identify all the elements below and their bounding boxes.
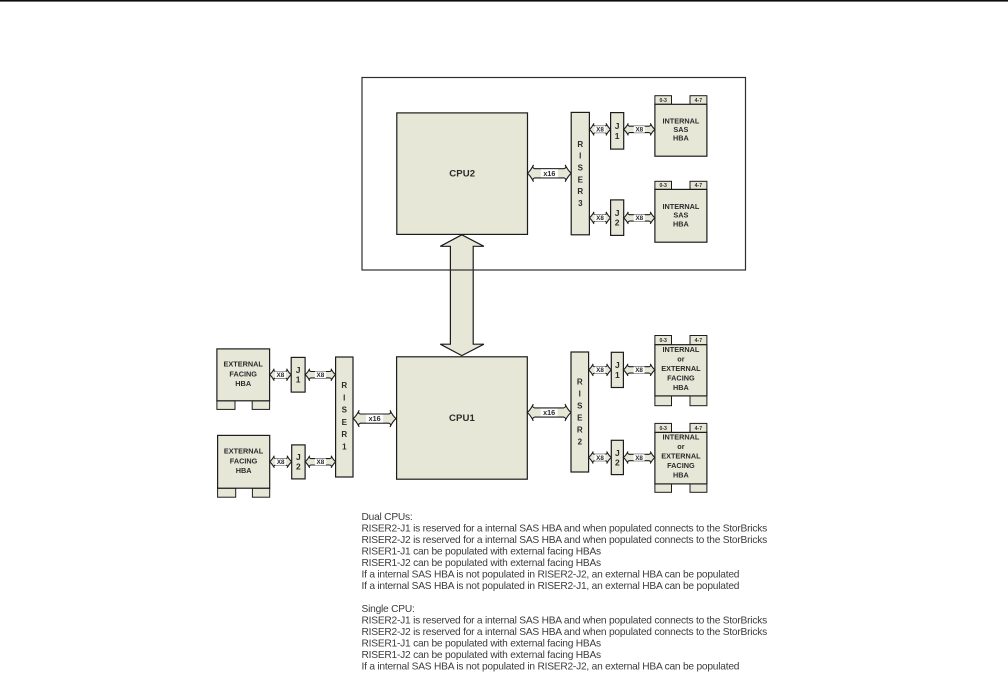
notes text block <box>362 512 768 673</box>
svg-text:SAS: SAS <box>673 125 688 134</box>
svg-text:E: E <box>577 413 583 422</box>
svg-text:1: 1 <box>615 131 620 141</box>
svg-text:FACING: FACING <box>667 461 695 470</box>
svg-text:HBA: HBA <box>673 134 690 143</box>
svg-text:INTERNAL: INTERNAL <box>662 433 699 442</box>
svg-text:X8: X8 <box>635 127 643 134</box>
svg-text:EXTERNAL: EXTERNAL <box>661 452 701 461</box>
svg-text:4-7: 4-7 <box>695 98 703 104</box>
svg-text:X8: X8 <box>596 367 604 374</box>
X8 arrow RISER3-J1 <box>589 123 610 135</box>
CPU1 box <box>397 357 528 479</box>
svg-text:X8: X8 <box>635 455 643 462</box>
svg-text:S: S <box>578 164 584 173</box>
svg-text:1: 1 <box>296 375 301 385</box>
svg-text:HBA: HBA <box>236 466 253 475</box>
svg-text:R: R <box>577 187 583 196</box>
svg-text:2: 2 <box>578 437 583 446</box>
X8 arrow RISER3-J2 <box>589 212 610 224</box>
svg-text:RISER2-J1 is reserved for a in: RISER2-J1 is reserved for a internal SAS… <box>362 523 768 534</box>
X8 arrow J2-internal SAS HBA 2 <box>624 212 655 224</box>
svg-text:X8: X8 <box>317 459 325 466</box>
svg-text:R: R <box>341 381 347 390</box>
svg-text:R: R <box>577 140 583 149</box>
svg-text:FACING: FACING <box>230 456 258 465</box>
dual CPU enclosure box <box>362 78 746 271</box>
svg-text:4-7: 4-7 <box>695 426 703 432</box>
svg-text:X8: X8 <box>277 459 285 466</box>
svg-text:RISER2-J1 is reserved for a in: RISER2-J1 is reserved for a internal SAS… <box>362 615 768 626</box>
svg-text:HBA: HBA <box>673 219 690 228</box>
svg-text:x16: x16 <box>543 169 555 178</box>
svg-text:EXTERNAL: EXTERNAL <box>661 364 701 373</box>
svg-text:RISER1-J1 can be populated wit: RISER1-J1 can be populated with external… <box>362 638 602 649</box>
svg-text:SAS: SAS <box>673 211 688 220</box>
svg-text:1: 1 <box>615 370 620 380</box>
interconnect double block arrow CPU2-CPU1 <box>440 235 484 356</box>
external facing HBA 1 <box>217 349 270 410</box>
svg-text:R: R <box>341 430 347 439</box>
X8 arrow RISER2-J1 <box>589 364 612 376</box>
svg-text:HBA: HBA <box>673 383 690 392</box>
X8 arrow J2-int/ext HBA 2 <box>623 452 655 464</box>
svg-text:HBA: HBA <box>673 471 690 480</box>
svg-text:0-3: 0-3 <box>659 338 667 344</box>
svg-text:Dual CPUs:: Dual CPUs: <box>362 512 413 523</box>
svg-text:E: E <box>578 175 584 184</box>
svg-text:INTERNAL: INTERNAL <box>662 345 699 354</box>
svg-text:4-7: 4-7 <box>695 338 703 344</box>
svg-text:I: I <box>579 152 581 161</box>
svg-text:2: 2 <box>296 462 301 472</box>
svg-text:CPU2: CPU2 <box>449 169 475 180</box>
svg-text:X8: X8 <box>317 372 325 379</box>
x16 arrow CPU1-RISER2 <box>527 404 571 421</box>
RISER1 box <box>336 357 353 477</box>
svg-text:X8: X8 <box>635 215 643 222</box>
svg-text:X8: X8 <box>277 372 285 379</box>
svg-text:0-3: 0-3 <box>659 426 667 432</box>
svg-text:INTERNAL: INTERNAL <box>662 202 699 211</box>
internal SAS HBA 2 <box>655 181 707 242</box>
svg-text:J: J <box>296 452 301 462</box>
svg-text:or: or <box>677 355 684 364</box>
svg-text:0-3: 0-3 <box>659 98 667 104</box>
connector J2 (riser3) <box>611 200 624 236</box>
svg-text:S: S <box>342 406 348 415</box>
RISER3 box <box>571 112 589 234</box>
svg-text:X8: X8 <box>635 367 643 374</box>
internal or external facing HBA 1 <box>655 336 707 406</box>
svg-text:X8: X8 <box>596 127 604 134</box>
X8 arrow J1-RISER1 <box>305 369 336 381</box>
x16 arrow RISER1-CPU1 <box>353 410 396 427</box>
connector J1 (riser2) <box>611 352 623 387</box>
connector J2 (riser2) <box>611 440 623 474</box>
svg-text:2: 2 <box>615 218 620 228</box>
X8 arrow J2-RISER1 <box>305 456 336 468</box>
svg-text:RISER1-J2 can be populated wit: RISER1-J2 can be populated with external… <box>362 650 602 661</box>
internal or external facing HBA 2 <box>655 423 707 492</box>
svg-text:E: E <box>342 418 348 427</box>
svg-text:Single CPU:: Single CPU: <box>362 604 415 615</box>
svg-text:X8: X8 <box>596 455 604 462</box>
top page border line <box>0 0 1008 2</box>
svg-text:0-3: 0-3 <box>659 183 667 189</box>
svg-text:R: R <box>577 425 583 434</box>
connector J2 (riser1) <box>292 445 305 479</box>
svg-text:RISER2-J2 is reserved for a in: RISER2-J2 is reserved for a internal SAS… <box>362 535 768 546</box>
svg-text:J: J <box>615 208 620 218</box>
X8 arrow J1-internal SAS HBA 1 <box>624 123 655 135</box>
X8 arrow RISER2-J2 <box>589 452 612 464</box>
svg-text:EXTERNAL: EXTERNAL <box>224 447 264 456</box>
svg-text:If a internal SAS HBA is not p: If a internal SAS HBA is not populated i… <box>362 569 740 580</box>
svg-text:If a internal SAS HBA is not p: If a internal SAS HBA is not populated i… <box>362 661 740 672</box>
svg-text:1: 1 <box>342 442 347 451</box>
svg-text:J: J <box>615 360 620 370</box>
x16 arrow CPU2-RISER3 <box>528 165 572 182</box>
external facing HBA 2 <box>218 435 270 497</box>
svg-text:I: I <box>579 389 581 398</box>
svg-text:RISER1-J1 can be populated wit: RISER1-J1 can be populated with external… <box>362 546 602 557</box>
svg-text:INTERNAL: INTERNAL <box>662 116 699 125</box>
RISER2 box <box>571 352 589 472</box>
svg-text:x16: x16 <box>543 408 555 417</box>
svg-text:R: R <box>577 377 583 386</box>
svg-text:FACING: FACING <box>667 374 695 383</box>
svg-text:J: J <box>615 448 620 458</box>
svg-text:RISER1-J2 can be populated wit: RISER1-J2 can be populated with external… <box>362 558 602 569</box>
connector J1 (riser1) <box>291 357 305 392</box>
svg-text:FACING: FACING <box>229 369 257 378</box>
svg-text:x16: x16 <box>369 414 381 423</box>
svg-text:or: or <box>677 442 684 451</box>
X8 arrow external HBA2-J2 <box>270 456 292 468</box>
svg-text:J: J <box>296 365 301 375</box>
X8 arrow external HBA1-J1 <box>270 369 292 381</box>
svg-text:HBA: HBA <box>235 379 252 388</box>
svg-text:S: S <box>577 401 583 410</box>
svg-text:I: I <box>343 393 345 402</box>
svg-text:X8: X8 <box>596 215 604 222</box>
svg-text:EXTERNAL: EXTERNAL <box>224 360 264 369</box>
X8 arrow J1-int/ext HBA 1 <box>623 364 655 376</box>
internal SAS HBA 1 <box>655 96 707 157</box>
svg-text:3: 3 <box>578 199 583 208</box>
svg-text:4-7: 4-7 <box>695 183 703 189</box>
svg-text:J: J <box>615 121 620 131</box>
connector J1 (riser3) <box>611 113 624 150</box>
CPU2 box <box>397 113 528 234</box>
svg-text:CPU1: CPU1 <box>449 413 476 424</box>
svg-text:RISER2-J2 is reserved for a in: RISER2-J2 is reserved for a internal SAS… <box>362 627 768 638</box>
svg-text:2: 2 <box>615 457 620 467</box>
svg-text:If a internal SAS HBA is not p: If a internal SAS HBA is not populated i… <box>362 581 740 592</box>
